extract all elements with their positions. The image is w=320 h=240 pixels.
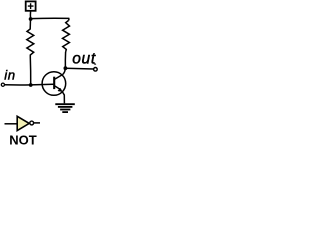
terminal: out xyxy=(94,68,98,72)
NOT gate icon triangle xyxy=(17,116,29,130)
svg-text:NOT: NOT xyxy=(9,132,37,147)
ground xyxy=(55,104,75,112)
resistor R1 (base pull-up) xyxy=(27,19,34,57)
wire: out node to out terminal xyxy=(65,67,93,70)
resistor R2 (collector) xyxy=(63,21,70,53)
wire: R1 bottom down to base node xyxy=(29,57,31,85)
transistor Q1 xyxy=(42,72,66,96)
wire: R2 bottom to out node xyxy=(64,52,66,68)
node: base junction dot xyxy=(29,83,33,87)
terminal: in xyxy=(1,83,4,86)
wire: in terminal to transistor base xyxy=(5,83,54,86)
wire: out node down to collector xyxy=(63,68,66,74)
NOT gate icon input wire xyxy=(5,123,18,125)
wire: V+ stem down to node A xyxy=(29,11,31,19)
label out t-hook xyxy=(94,63,96,65)
node: out junction dot xyxy=(64,66,68,70)
wire: node A right to resistor R2 top corner xyxy=(31,18,69,20)
NOT gate icon inversion bubble xyxy=(30,121,34,125)
node A junction dot xyxy=(29,17,33,21)
wire: emitter down to ground xyxy=(62,92,64,104)
power supply V+ symbol xyxy=(26,1,36,10)
svg-text:out: out xyxy=(72,51,96,68)
NOT gate icon output wire xyxy=(34,122,40,124)
svg-text:in: in xyxy=(4,67,15,82)
